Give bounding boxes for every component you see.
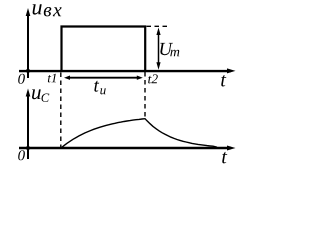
bottom plot y-axis — [26, 89, 31, 160]
label u_vx (top axis label) — [33, 4, 62, 16]
top plot y-axis — [26, 8, 31, 78]
label tu — [94, 81, 105, 95]
label t1 — [48, 74, 56, 83]
pulse rectangle u_ex — [62, 27, 146, 72]
t1 dashed vertical line — [60, 73, 62, 148]
label t2 — [148, 74, 158, 83]
capacitor voltage curve uC — [61, 119, 217, 148]
label 0 (top plot) — [18, 74, 25, 84]
tu duration double arrow — [64, 76, 143, 80]
Um dimension double arrow — [156, 28, 160, 70]
origin dot bottom plot — [26, 146, 30, 150]
label Um — [160, 43, 179, 56]
top plot t-axis — [19, 68, 236, 73]
bottom plot t-axis — [19, 146, 236, 151]
label t (top axis) — [221, 75, 226, 87]
dashed level line at Um — [147, 25, 168, 27]
label 0 (bottom plot) — [18, 150, 25, 160]
t2 dashed vertical line — [144, 72, 146, 118]
origin dot top plot — [26, 69, 30, 73]
label t (bottom axis) — [222, 152, 227, 164]
label u_C (bottom axis label) — [32, 89, 49, 102]
